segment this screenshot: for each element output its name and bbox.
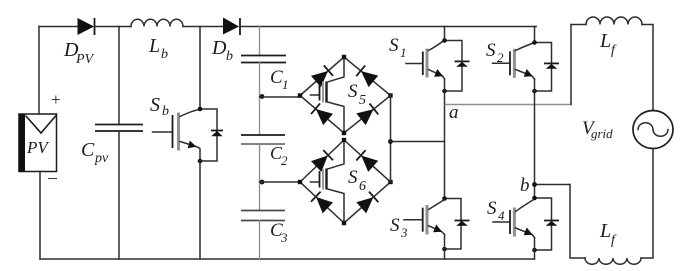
svg-text:S: S [150,94,160,116]
node S4 collector [532,196,537,201]
svg-text:pv: pv [94,151,109,166]
node S6 left [298,180,302,184]
diode S6 bottom-right [356,197,373,213]
wire Vgrid bottom [641,149,653,259]
wire top rail segment 5 [445,26,537,28]
node C1-C2 midpoint [260,94,265,99]
svg-text:4: 4 [498,208,505,223]
transistor S5 IGBT [311,57,367,133]
wire leg1 bottom [444,235,446,260]
wire left vertical top [38,27,40,115]
node Sb emitter [198,159,203,164]
transistor S4 IGBT [487,198,535,238]
capacitor Cpv [81,125,143,167]
diode S6 bottom-left [316,197,333,213]
svg-text:1: 1 [400,45,407,60]
wire node a to Lf top [445,104,572,106]
bridge S6 frame [300,140,391,223]
wire Sb branch bottom [199,161,201,259]
inductor Lf top [586,17,642,58]
svg-text:b: b [520,175,530,196]
node S1 collector [442,38,447,43]
wire top rail segment 1 [39,26,78,28]
node S2 collector [532,40,537,45]
node S5 left [298,93,302,97]
wire leg2 top [535,27,537,43]
svg-text:b: b [162,104,169,119]
svg-text:−: − [46,169,59,190]
wire top rail segment 4 [241,26,445,28]
transistor S6 IGBT [311,140,367,223]
node bridge midpoint [388,139,393,144]
capacitor C1 [241,56,289,93]
svg-text:3: 3 [280,230,288,245]
svg-text:D: D [211,37,227,59]
source Vgrid [582,111,673,149]
svg-text:S: S [389,35,399,56]
svg-text:1: 1 [282,77,289,92]
svg-text:S: S [390,215,400,236]
wire left vertical bottom [39,172,41,260]
wire midpoint1 to S5 bridge [260,96,301,98]
node S6 bottom [342,221,346,225]
capacitor C2 [241,135,288,168]
wire bottom rail [40,258,535,260]
diode S2 antiparallel [535,43,560,92]
node Sb collector [198,107,203,112]
svg-text:L: L [148,35,160,57]
diode S5 top-right [361,71,378,87]
svg-text:S: S [348,167,358,188]
node S3 emitter [442,247,447,252]
bridge S5 frame [300,57,391,133]
wire midpoint2 to S6 bridge [260,181,301,183]
diode S6 top-left [311,156,328,172]
svg-text:+: + [50,90,61,109]
node S5 top [342,55,346,59]
wire Cpv top [118,27,120,125]
wire Lf top lead [571,24,586,26]
wire dc bus above C1 [259,27,261,56]
svg-text:L: L [599,30,611,52]
wire Lf bottom to node b riser [570,185,585,259]
diode S5 bottom-right [356,109,373,125]
wire top rail segment 2 [95,26,131,28]
wire Lf top to grid [642,25,653,111]
svg-text:b: b [161,47,168,62]
transistor Sb IGBT [150,94,200,161]
wire node b to riser [535,184,571,186]
capacitor C3 [241,211,288,246]
diode Db [211,18,240,65]
svg-text:PV: PV [75,52,95,67]
diode S4 antiparallel [535,198,560,250]
wire leg2 middle [534,79,536,199]
svg-text:L: L [599,220,611,242]
wire bridge midpoint to leg1 [391,141,445,143]
svg-text:grid: grid [591,126,613,141]
svg-text:2: 2 [497,50,504,65]
svg-text:S: S [487,198,497,219]
svg-text:C: C [81,139,95,161]
node S6 top [342,138,346,142]
wire leg2 bottom [534,238,536,260]
node S5 right [388,93,392,97]
wire Cpv bottom [118,131,120,259]
node S5 bottom [342,131,346,135]
wire dc bus below C3 [259,221,261,260]
node S1 emitter [442,89,447,94]
diode S5 bottom-left [316,109,333,125]
transistor S2 IGBT [486,40,535,79]
wire leg1 top [444,27,446,41]
inductor Lf bottom [585,220,641,264]
transistor S1 IGBT [389,35,445,79]
node S2 emitter [532,89,537,94]
svg-text:PV: PV [26,138,50,157]
wire top rail segment 3 [183,26,223,28]
svg-text:S: S [486,40,496,61]
wire leg1 middle [444,79,446,199]
svg-text:5: 5 [359,93,366,108]
svg-text:b: b [226,49,233,64]
node S3 collector [442,196,447,201]
node b [532,182,537,187]
inductor Lb [131,19,183,62]
svg-text:3: 3 [400,225,408,240]
wire dc bus C2 to C3 [259,144,261,211]
svg-text:6: 6 [359,179,366,194]
diode S6 top-right [361,156,378,172]
PV panel [19,114,57,173]
wire Sb branch top [199,27,201,110]
wire bridge right bus [390,96,392,183]
diode DPV [63,18,95,67]
diode Sb antiparallel [200,109,223,161]
svg-text:2: 2 [281,153,288,168]
transistor S3 IGBT [390,200,445,241]
node S6 right [388,180,392,184]
node S4 emitter [532,248,537,253]
svg-text:S: S [348,81,358,102]
wire dc bus C1 to C2 [259,63,261,136]
diode S3 antiparallel [445,199,470,250]
node C2-C3 midpoint [260,180,265,185]
diode S5 top-left [311,71,328,87]
diode S1 antiparallel [445,41,470,92]
